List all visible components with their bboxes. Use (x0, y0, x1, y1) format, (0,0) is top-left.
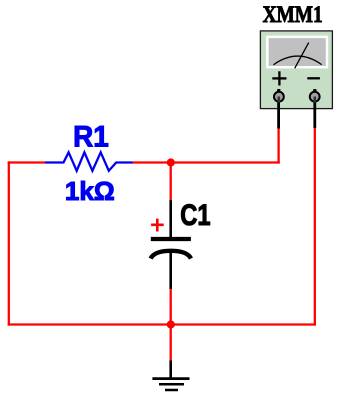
wire top horizontal left segment (8, 161, 46, 163)
multimeter plus terminal marking (272, 71, 286, 85)
capacitor C1 top lead (black) (169, 200, 172, 239)
wire capacitor top stub (red) (170, 162, 172, 202)
wire ground stub (red) (170, 324, 172, 362)
wire multimeter left terminal vertical (red part) (277, 128, 279, 164)
capacitor C1 bottom lead (black) (169, 252, 172, 289)
multimeter right terminal (310, 92, 320, 102)
multimeter display white frame (266, 36, 328, 69)
junction bottom node (167, 320, 175, 328)
multimeter left terminal pin (black stub) (277, 91, 280, 129)
multimeter left terminal (274, 92, 284, 102)
capacitor C1 top plate (151, 237, 191, 241)
multimeter needle (295, 43, 309, 69)
capacitor C1 bottom plate (curved) (151, 251, 191, 259)
ground bar 3 (165, 389, 178, 392)
ground bar 2 (159, 383, 184, 386)
capacitor polarity plus sign (151, 219, 164, 232)
junction top node (167, 158, 175, 166)
wire top horizontal right segment (132, 161, 280, 163)
svg-text:C1: C1 (180, 199, 210, 232)
multimeter minus terminal marking (307, 77, 320, 79)
svg-text:1kΩ: 1kΩ (65, 176, 115, 206)
wire bottom horizontal (8, 323, 316, 325)
wire left vertical (8, 161, 10, 325)
wire capacitor bottom stub (red) (170, 288, 172, 326)
multimeter scale arc (274, 56, 322, 65)
wire multimeter right terminal vertical (red part) (314, 127, 316, 326)
ground bar 1 (152, 377, 189, 380)
multimeter right terminal pin (black stub) (313, 91, 316, 129)
resistor R1 (45, 152, 132, 171)
svg-text:XMM1: XMM1 (263, 1, 323, 27)
multimeter right terminal pin nub (313, 89, 316, 93)
svg-text:R1: R1 (73, 121, 109, 154)
multimeter XMM1 body (260, 31, 332, 109)
ground lead (black) (169, 361, 172, 379)
multimeter display gray screen (269, 38, 326, 66)
multimeter left terminal pin nub (277, 89, 280, 93)
